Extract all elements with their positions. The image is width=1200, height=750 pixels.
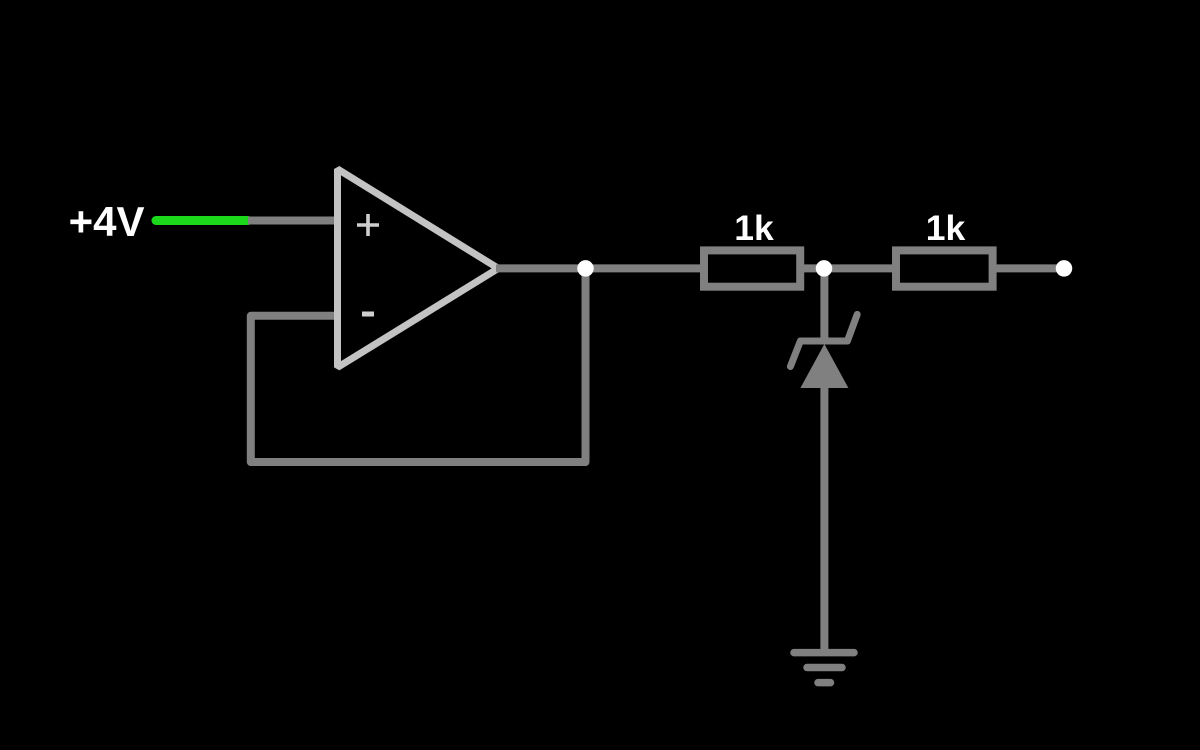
op-amp + input sign: [357, 214, 379, 236]
zener diode D1 cathode bar with wings: [790, 314, 857, 366]
output terminal dot: [1056, 260, 1073, 277]
wire zener to ground: [820, 386, 828, 652]
output wire from apex to resistor R1: [496, 264, 704, 272]
wire green (+4V source lead): [156, 216, 248, 225]
wire R1 to R2: [800, 264, 896, 272]
wire R2 to output terminal: [992, 264, 1060, 272]
resistor R2 1k: [896, 250, 993, 286]
svg-text:1k: 1k: [926, 208, 966, 248]
zener diode D1 anode triangle: [800, 344, 848, 388]
feedback wire (minus input, left, bottom, up to output node): [251, 268, 586, 462]
wire node to zener cathode: [820, 268, 828, 342]
svg-text:+4V: +4V: [69, 198, 145, 245]
resistor R1 1k: [704, 250, 800, 286]
wire to op-amp + input: [248, 217, 340, 225]
ground bar 1: [794, 649, 854, 657]
op-amp - input sign: [362, 312, 374, 317]
op-amp U1 body: [338, 169, 499, 367]
node dot between resistors: [816, 260, 833, 277]
ground bar 3: [818, 679, 831, 687]
node dot at op-amp output: [577, 260, 594, 277]
ground bar 2: [807, 664, 842, 672]
svg-text:1k: 1k: [734, 208, 774, 248]
